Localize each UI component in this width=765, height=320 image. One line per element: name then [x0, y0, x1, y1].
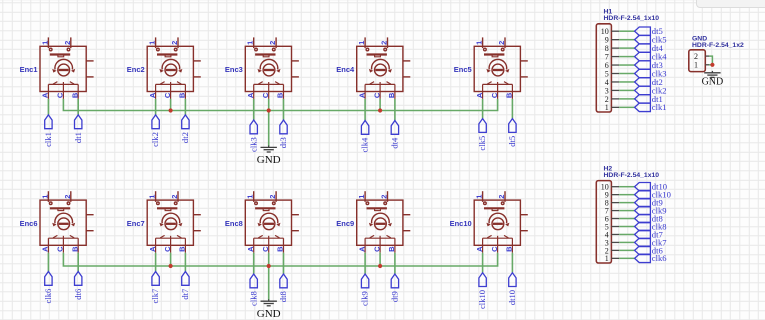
Enc1 push switch — [50, 53, 70, 55]
Enc6 push switch — [50, 207, 70, 209]
rotary encoder Enc10 — [474, 191, 528, 253]
Enc10 pin 2 — [504, 191, 506, 202]
net flag dt1 — [635, 95, 651, 103]
net flag clk7 — [635, 238, 651, 246]
Enc7 rotary shaft — [165, 218, 177, 230]
svg-text:Enc9: Enc9 — [336, 219, 354, 228]
Enc10 pin B — [511, 238, 513, 253]
Enc5 pin 2 — [504, 37, 506, 48]
wire Enc7 B to dt7 — [184, 253, 186, 272]
svg-text:Enc5: Enc5 — [454, 65, 472, 74]
Enc5 push switch — [484, 53, 504, 55]
net flag dt10 — [509, 273, 516, 287]
junction GND header — [710, 63, 714, 67]
net flag clk2 — [635, 86, 651, 94]
Enc10 rotary shaft — [492, 218, 504, 230]
svg-text:dt2: dt2 — [180, 132, 190, 143]
svg-text:B: B — [276, 246, 285, 252]
svg-text:GND: GND — [257, 308, 281, 320]
Enc9 pin 2 — [387, 191, 389, 202]
Enc4 right pins — [403, 60, 410, 62]
wire Enc6 B to dt6 — [77, 253, 79, 272]
svg-text:Enc10: Enc10 — [450, 219, 472, 228]
wire H1 pin 6 — [619, 64, 635, 66]
svg-text:Enc2: Enc2 — [127, 65, 145, 74]
svg-text:clk6: clk6 — [43, 288, 53, 303]
Enc9 right pins — [403, 214, 410, 216]
Enc2 push switch — [157, 53, 177, 55]
net flag dt1 — [75, 115, 82, 129]
svg-text:1: 1 — [148, 41, 157, 45]
svg-text:clk7: clk7 — [150, 288, 160, 303]
svg-text:dt10: dt10 — [507, 290, 517, 305]
svg-text:C: C — [490, 246, 499, 252]
svg-text:clk9: clk9 — [360, 291, 370, 306]
Enc8 pin number labels — [246, 195, 285, 252]
Enc9 rotary shaft — [375, 218, 387, 230]
svg-text:1: 1 — [246, 195, 255, 199]
wire H1 pin 4 — [619, 81, 635, 83]
net flag clk6 — [635, 254, 651, 262]
svg-text:1: 1 — [40, 41, 49, 45]
net flag clk4 — [635, 52, 651, 60]
svg-text:clk6: clk6 — [652, 253, 667, 263]
svg-text:C: C — [490, 92, 499, 98]
Enc3 pin B — [283, 84, 285, 99]
net flag clk10 — [635, 190, 651, 198]
Enc5 right pins — [520, 60, 527, 62]
Enc2 pin 1 — [155, 37, 157, 48]
ground symbol — [261, 146, 277, 153]
Enc8 pin 2 — [275, 191, 277, 202]
svg-text:A: A — [357, 92, 366, 98]
Enc2 contacts — [156, 83, 186, 85]
wire Enc2 C to bus — [170, 99, 172, 111]
wire Enc2 B to dt2 — [184, 99, 186, 115]
net flag dt6 — [635, 246, 651, 254]
wire Enc3 B to dt3 — [283, 99, 285, 120]
wire H1 pin 1 — [619, 106, 635, 108]
Enc8 pin C — [268, 238, 270, 253]
wire H2 pin 7 — [619, 210, 635, 212]
svg-text:C: C — [163, 246, 172, 252]
Enc6 pin B — [77, 238, 79, 253]
Enc7 push switch — [157, 207, 177, 209]
Enc5 pin A — [482, 84, 484, 99]
net flag clk2 — [152, 115, 159, 129]
wire H2 pin 9 — [619, 194, 635, 196]
svg-text:Enc7: Enc7 — [127, 219, 145, 228]
ground symbol — [261, 299, 277, 306]
Enc2 pin B — [184, 84, 186, 99]
net flag clk7 — [152, 272, 159, 286]
Enc8 rotary shaft — [263, 218, 275, 230]
svg-text:clk10: clk10 — [477, 290, 487, 309]
svg-text:C: C — [261, 92, 270, 98]
Enc1 body — [40, 46, 86, 91]
svg-text:2: 2 — [268, 195, 277, 199]
Enc7 pin C — [170, 238, 172, 253]
svg-text:A: A — [475, 92, 484, 98]
net flag clk10 — [479, 273, 486, 287]
wire H2 pin 6 — [619, 218, 635, 220]
UI panel corner top-right — [696, 0, 765, 8]
Enc6 rotary shaft — [58, 218, 70, 230]
net flag clk8 — [250, 274, 257, 288]
net flag dt8 — [635, 214, 651, 222]
svg-text:B: B — [178, 246, 187, 252]
svg-text:HDR-F-2.54_1x2: HDR-F-2.54_1x2 — [692, 42, 744, 49]
Enc3 push switch — [255, 53, 275, 55]
wire Enc1 A to clk1 — [47, 99, 49, 115]
junction Enc4 C / bus — [378, 108, 382, 112]
net flag clk9 — [635, 206, 651, 214]
Enc2 pin C — [170, 84, 172, 99]
ground symbol — [704, 71, 720, 78]
wire Enc9 B to dt9 — [394, 253, 396, 274]
Enc1 pin 1 — [47, 37, 49, 48]
Enc8 pin 1 — [253, 191, 255, 202]
wire H1 pin 2 — [619, 98, 635, 100]
Enc7 pin B — [184, 238, 186, 253]
wire H2 pin 5 — [619, 226, 635, 228]
Enc10 pin number labels — [475, 195, 514, 252]
net flag dt7 — [182, 272, 189, 286]
Enc5 body — [474, 46, 520, 91]
wire Enc5 B to dt5 — [511, 99, 513, 119]
Enc8 right pins — [292, 214, 299, 216]
Enc10 push switch — [484, 207, 504, 209]
rotary encoder Enc4 — [357, 37, 411, 99]
svg-text:clk1: clk1 — [652, 102, 667, 112]
Enc10 body — [474, 200, 520, 245]
Enc5 pin B — [511, 84, 513, 99]
net flag dt2 — [182, 115, 189, 129]
svg-text:clk5: clk5 — [477, 136, 487, 151]
svg-text:clk2: clk2 — [150, 132, 160, 147]
rotary encoder Enc9 — [357, 191, 411, 253]
wire Enc3 C to bus — [268, 99, 270, 111]
net flag clk3 — [250, 120, 257, 134]
Enc2 pin 2 — [177, 37, 179, 48]
svg-text:clk1: clk1 — [43, 132, 53, 147]
Enc8 body — [245, 200, 291, 245]
net flag dt5 — [509, 119, 516, 133]
wire Enc5 A to clk5 — [482, 99, 484, 119]
net flag dt3 — [280, 120, 287, 134]
Enc7 pin A — [155, 238, 157, 253]
svg-text:1: 1 — [605, 254, 609, 263]
svg-text:Enc4: Enc4 — [336, 65, 355, 74]
Enc4 pin 1 — [364, 37, 366, 48]
Enc4 body — [357, 46, 403, 91]
svg-text:clk3: clk3 — [248, 137, 258, 152]
svg-text:2: 2 — [380, 41, 389, 45]
net flag dt9 — [635, 198, 651, 206]
Enc3 rotary shaft — [263, 64, 275, 76]
svg-text:B: B — [70, 92, 79, 98]
Enc5 pin 1 — [482, 37, 484, 48]
Enc1 pin A — [47, 84, 49, 99]
net flag clk5 — [479, 119, 486, 133]
svg-text:A: A — [148, 246, 157, 252]
net flag dt3 — [635, 61, 651, 69]
Enc9 contacts — [365, 237, 395, 239]
svg-text:dt6: dt6 — [73, 288, 83, 300]
wire GND bus row2 — [63, 253, 497, 266]
wire Enc7 C to bus — [170, 253, 172, 266]
net flag clk3 — [635, 69, 651, 77]
svg-text:1: 1 — [694, 61, 698, 70]
wire Enc2 A to clk2 — [155, 99, 157, 115]
Enc1 pin B — [77, 84, 79, 99]
Enc9 pin A — [364, 238, 366, 253]
wire Enc9 C to bus — [379, 253, 381, 266]
svg-text:B: B — [505, 246, 514, 252]
Enc8 contacts — [254, 237, 284, 239]
svg-text:dt3: dt3 — [278, 137, 288, 148]
net flag clk1 — [635, 103, 651, 111]
Enc1 pin C — [62, 84, 64, 99]
wire GND header pin 1 — [709, 64, 712, 66]
svg-text:HDR-F-2.54_1x10: HDR-F-2.54_1x10 — [604, 172, 660, 179]
wire Enc6 A to clk6 — [47, 253, 49, 272]
svg-text:1: 1 — [475, 195, 484, 199]
net flag dt7 — [635, 230, 651, 238]
Enc9 push switch — [367, 207, 387, 209]
Enc4 contacts — [365, 83, 395, 85]
svg-text:1: 1 — [246, 41, 255, 45]
Enc1 pin number labels — [40, 41, 79, 98]
svg-text:2: 2 — [170, 41, 179, 45]
Enc3 pin C — [268, 84, 270, 99]
svg-text:1: 1 — [148, 195, 157, 199]
Enc4 pin B — [394, 84, 396, 99]
wire Enc10 A to clk10 — [482, 253, 484, 273]
Enc2 pin A — [155, 84, 157, 99]
Enc7 body — [147, 200, 193, 245]
rotary encoder Enc5 — [474, 37, 528, 99]
svg-text:A: A — [475, 246, 484, 252]
Enc4 pin A — [364, 84, 366, 99]
net flag dt4 — [635, 44, 651, 52]
rotary encoder Enc7 — [147, 191, 201, 253]
wire Enc4 B to dt4 — [394, 99, 396, 121]
Enc10 pin A — [482, 238, 484, 253]
net flag clk4 — [361, 121, 368, 135]
rotary encoder Enc3 — [245, 37, 299, 99]
svg-text:C: C — [372, 246, 381, 252]
svg-text:1: 1 — [357, 195, 366, 199]
Enc4 pin number labels — [357, 41, 396, 98]
Enc5 contacts — [483, 83, 513, 85]
svg-text:GND: GND — [257, 154, 281, 166]
net flag dt8 — [280, 274, 287, 288]
junction Enc7 C / bus — [169, 264, 173, 268]
wire Enc7 A to clk7 — [155, 253, 157, 272]
wire H2 pin 3 — [619, 241, 635, 243]
wire Enc8 C to bus — [268, 253, 270, 266]
net flag dt5 — [635, 27, 651, 35]
svg-text:C: C — [261, 246, 270, 252]
Enc3 pin 1 — [253, 37, 255, 48]
Enc1 pin 2 — [70, 37, 72, 48]
Enc6 body — [40, 200, 86, 245]
Enc6 pin 2 — [70, 191, 72, 202]
svg-text:A: A — [246, 246, 255, 252]
junction Enc2 C / bus — [169, 108, 173, 112]
Enc1 contacts — [48, 83, 78, 85]
Enc4 pin C — [379, 84, 381, 99]
svg-text:A: A — [148, 92, 157, 98]
Enc5 pin C — [497, 84, 499, 99]
net flag dt10 — [635, 183, 651, 191]
Enc3 pin A — [253, 84, 255, 99]
net flag clk8 — [635, 222, 651, 230]
Enc10 right pins — [520, 214, 527, 216]
svg-text:1: 1 — [605, 103, 609, 112]
Enc6 pin A — [47, 238, 49, 253]
Enc10 pin 1 — [482, 191, 484, 202]
wire H2 pin 10 — [619, 186, 635, 188]
rotary encoder Enc8 — [245, 191, 299, 253]
wire H1 pin 5 — [619, 73, 635, 75]
wire H1 pin 3 — [619, 89, 635, 91]
wire Enc10 B to dt10 — [511, 253, 513, 273]
Enc5 rotary shaft — [492, 64, 504, 76]
Enc7 contacts — [156, 237, 186, 239]
svg-text:Enc8: Enc8 — [225, 219, 243, 228]
net flag dt4 — [391, 121, 398, 135]
svg-text:B: B — [505, 92, 514, 98]
wire Enc8 B to dt8 — [283, 253, 285, 274]
Enc8 pin A — [253, 238, 255, 253]
wire H1 pin 10 — [619, 30, 635, 32]
Enc4 push switch — [367, 53, 387, 55]
svg-text:A: A — [41, 92, 50, 98]
Enc10 contacts — [483, 237, 513, 239]
wire Enc4 C to bus — [379, 99, 381, 111]
svg-text:dt5: dt5 — [507, 136, 517, 147]
Enc1 right pins — [86, 60, 93, 62]
Enc9 pin 1 — [364, 191, 366, 202]
Enc6 pin C — [62, 238, 64, 253]
wire H2 pin 1 — [619, 257, 635, 259]
net flag dt6 — [75, 272, 82, 286]
svg-text:Enc1: Enc1 — [20, 65, 38, 74]
svg-text:B: B — [276, 92, 285, 98]
svg-text:A: A — [357, 246, 366, 252]
Enc2 pin number labels — [148, 41, 187, 98]
Enc3 pin number labels — [246, 41, 285, 98]
svg-text:2: 2 — [170, 195, 179, 199]
Enc1 rotary shaft — [58, 64, 70, 76]
svg-text:B: B — [387, 92, 396, 98]
Enc8 pin B — [283, 238, 285, 253]
svg-text:2: 2 — [63, 195, 72, 199]
svg-text:1: 1 — [40, 195, 49, 199]
wire H2 pin 8 — [619, 202, 635, 204]
svg-text:B: B — [70, 246, 79, 252]
svg-text:dt8: dt8 — [278, 291, 288, 302]
Enc6 right pins — [86, 214, 93, 216]
svg-text:Enc3: Enc3 — [225, 65, 243, 74]
Enc7 right pins — [193, 214, 200, 216]
wire Enc9 A to clk9 — [364, 253, 366, 274]
wire H1 pin 8 — [619, 47, 635, 49]
Enc4 rotary shaft — [375, 64, 387, 76]
junction Enc9 C / bus — [378, 264, 382, 268]
Enc3 body — [245, 46, 291, 91]
svg-text:dt4: dt4 — [390, 137, 400, 149]
Enc2 right pins — [193, 60, 200, 62]
svg-text:2: 2 — [63, 41, 72, 45]
svg-text:1: 1 — [475, 41, 484, 45]
Enc10 pin C — [497, 238, 499, 253]
Enc9 pin number labels — [357, 195, 396, 252]
wire Enc4 A to clk4 — [364, 99, 366, 121]
Enc2 body — [147, 46, 193, 91]
Enc5 pin number labels — [475, 41, 514, 98]
Enc9 pin B — [394, 238, 396, 253]
Enc6 pin 1 — [47, 191, 49, 202]
Enc8 push switch — [255, 207, 275, 209]
net flag dt2 — [635, 78, 651, 86]
rotary encoder Enc6 — [40, 191, 94, 253]
svg-text:HDR-F-2.54_1x10: HDR-F-2.54_1x10 — [604, 15, 660, 22]
net flag clk6 — [45, 272, 52, 286]
junction Enc3 C / bus — [267, 108, 271, 112]
Enc7 pin 2 — [177, 191, 179, 202]
Enc2 rotary shaft — [165, 64, 177, 76]
svg-text:2: 2 — [497, 41, 506, 45]
svg-text:clk8: clk8 — [248, 291, 258, 306]
svg-text:A: A — [41, 246, 50, 252]
svg-text:1: 1 — [357, 41, 366, 45]
svg-text:C: C — [56, 246, 65, 252]
Enc6 contacts — [48, 237, 78, 239]
Enc3 pin 2 — [275, 37, 277, 48]
svg-text:2: 2 — [497, 195, 506, 199]
svg-text:2: 2 — [694, 52, 698, 61]
net flag clk5 — [635, 35, 651, 43]
Enc3 contacts — [254, 83, 284, 85]
Enc4 pin 2 — [387, 37, 389, 48]
svg-text:A: A — [246, 92, 255, 98]
svg-text:C: C — [372, 92, 381, 98]
wire H1 pin 7 — [619, 56, 635, 58]
rotary encoder Enc1 — [40, 37, 94, 99]
net flag dt9 — [391, 274, 398, 288]
wire Enc8 C to GND — [268, 266, 270, 300]
wire Enc3 C to GND — [268, 111, 270, 147]
net flag clk1 — [45, 115, 52, 129]
svg-text:dt7: dt7 — [180, 288, 190, 300]
wire H2 pin 2 — [619, 249, 635, 251]
svg-text:clk4: clk4 — [360, 137, 370, 152]
svg-text:dt1: dt1 — [73, 132, 83, 143]
svg-text:Enc6: Enc6 — [20, 219, 38, 228]
net flag clk9 — [361, 274, 368, 288]
Enc9 body — [357, 200, 403, 245]
svg-text:B: B — [178, 92, 187, 98]
rotary encoder Enc2 — [147, 37, 201, 99]
svg-text:GND: GND — [702, 77, 724, 88]
Enc7 pin number labels — [148, 195, 187, 252]
wire Enc8 A to clk8 — [253, 253, 255, 274]
wire GND header pin 2 — [709, 56, 712, 65]
wire Enc3 A to clk3 — [253, 99, 255, 120]
